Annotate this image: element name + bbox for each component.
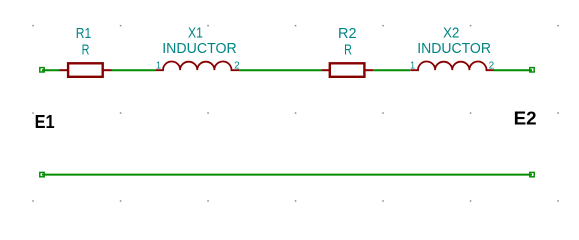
svg-text:R: R — [344, 43, 352, 59]
svg-text:1: 1 — [156, 61, 161, 72]
svg-text:X1: X1 — [188, 26, 203, 42]
wire: X2 to top-right square — [494, 69, 532, 71]
svg-text:R2: R2 — [338, 26, 357, 42]
unconnected end square (bottom-left) — [40, 172, 44, 176]
svg-text:R1: R1 — [76, 26, 92, 42]
unconnected end square (top-right) — [530, 68, 534, 72]
wire: R2 to X2 — [373, 69, 410, 71]
svg-text:INDUCTOR: INDUCTOR — [417, 41, 491, 57]
svg-text:2: 2 — [489, 61, 495, 72]
resistor R1 — [60, 63, 112, 77]
svg-text:E2: E2 — [514, 108, 537, 128]
wire: X1 to R2 — [239, 69, 321, 71]
unconnected end square (bottom-right) — [530, 172, 534, 176]
inductor X2 — [410, 62, 494, 71]
svg-text:E1: E1 — [35, 112, 55, 132]
wire: R1 to X1 — [112, 69, 156, 71]
svg-text:INDUCTOR: INDUCTOR — [162, 41, 237, 57]
svg-text:X2: X2 — [443, 26, 460, 42]
wire: top-left square to R1 pin 1 — [42, 69, 60, 71]
svg-text:R: R — [82, 43, 90, 59]
unconnected end square (top-left) — [40, 68, 44, 72]
resistor R2 — [321, 63, 373, 77]
svg-text:1: 1 — [410, 61, 415, 72]
wire: bottom return wire — [42, 174, 532, 176]
inductor X1 — [155, 62, 239, 71]
